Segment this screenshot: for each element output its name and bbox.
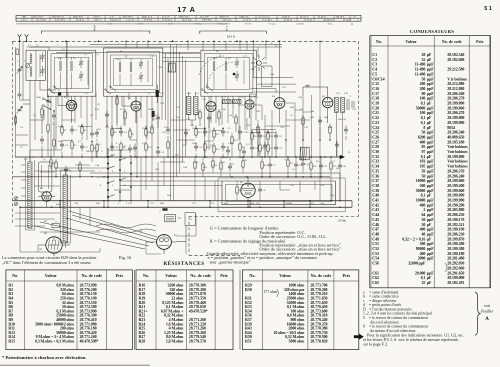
chassis dashed bottom-right [189,215,359,217]
IF can wires [189,92,196,126]
stage A nested loop 2 [54,57,89,89]
dashed motor enclosure [188,216,190,255]
pickup terminals [15,197,18,200]
svg-text:283211-49011-49011-49050200200: 283211-49011-49011-49050200200901000,150… [402,52,426,285]
svg-text:28.773.99028.776.20028.776.130: 28.773.99028.776.20028.776.13028.776.190… [80,283,99,344]
links between can B and can C [163,54,205,126]
capacitor C37 [268,163,272,165]
capacitor [242,150,246,152]
resistor [242,161,244,167]
resistor R8 [145,129,147,135]
wire right edge drop [351,201,353,208]
svg-text:28.773.70028.770.20028.770.210: 28.773.70028.770.20028.770.21028.771.650… [310,283,327,344]
svg-text:Prix: Prix [220,273,229,278]
svg-text:Prix: Prix [343,273,352,278]
resistor R18 [204,144,206,150]
svg-text:voir: voir [484,304,491,308]
resistor [55,162,57,168]
capacitor [156,116,160,118]
resistor R16 [195,129,197,135]
grid cap wire V2 [122,96,131,106]
variable capacitor C4 [18,108,22,110]
capacitor C27 [238,130,242,132]
bus wire y177 [13,176,331,178]
svg-text:No.: No. [12,273,18,278]
capacitor C22 [221,130,225,132]
svg-text:Prix: Prix [116,273,125,278]
svg-text:G = Commutateur de longueur: G = Commutateur de longueur d'ondes.Posi… [207,226,342,266]
capacitor C9 [90,132,94,134]
resistor [167,142,169,148]
legend a-6 [363,290,432,333]
svg-text:1000 ohm320 ohm par1400 ohm250: 1000 ohm320 ohm par1400 ohm25000 ohm5200… [273,283,305,344]
capacitor C23 [194,145,198,147]
stubs from dashed rail [126,41,266,50]
tube V2 EK2 [131,101,141,111]
resistor R17 [213,131,215,137]
mid horizontals y120-150 [62,120,276,141]
svg-text:µFµFµµFµµFµµFµµFµµFµµFµµFµµFµF: µFµFµµFµµFµµFµµFµµFµµFµµFµµFµFµµFµµFµFµF… [427,52,434,285]
capacitor C21 [203,130,207,132]
antenna terminal [18,34,22,41]
trimmer capacitor [139,62,143,64]
capacitor [184,131,188,133]
bus wire y181 [120,180,222,182]
stage B nested loop 3 [114,59,153,86]
junction dot [98,40,100,42]
wires around tuning bar [21,150,40,230]
resistances group 1 rows [8,283,98,344]
resistor [124,112,126,118]
relay box 14 [165,215,176,222]
arrow right end of AVC rail [340,155,345,159]
capacitor C35 [274,146,278,148]
antenna coil can [26,50,45,80]
resistor [199,112,201,118]
resistor [202,164,204,170]
grid cap wire V1 [58,96,66,105]
coil hatched bar [334,97,338,112]
resistor [47,125,49,131]
svg-text:R16R17R18R19R20R21R21+R22R23R2: R16R17R18R19R20R21R21+R22R23R24R25R26R27… [139,283,149,344]
svg-text:Valeur: Valeur [165,273,177,278]
svg-text:28.182.54028.182.60029.212.580: 28.182.54028.182.60029.212.580V ir bobin… [447,52,468,285]
resistor [235,117,237,123]
coil hatched bar [341,97,345,112]
bus wire y185 [120,185,222,187]
pilot lamp with rays [257,61,262,66]
stage B bottom wires [112,111,158,177]
wires around transformer bar [61,170,71,248]
wire motor to relay [176,213,195,242]
heater rail wire y200 [13,200,353,202]
left wire links [16,100,31,145]
resistances group 3 rows [245,283,328,344]
coil winding [213,61,215,63]
coil hatched bar [28,162,32,228]
coil hatched block [232,100,241,104]
capacitor [52,114,56,116]
switch contacts left [44,99,50,109]
rail contact dots [59,200,60,201]
resistor [116,98,118,104]
resistances group 1 frame [6,270,132,350]
tube V4 EM4 [245,100,254,109]
resistor [151,127,153,133]
resistor R21 [239,144,241,150]
capacitor [105,113,109,115]
bus wire y173 [90,172,340,174]
resistor R23 [267,133,269,139]
resistor R19 [213,146,215,152]
resistor [79,164,81,170]
condensateurs table frame [370,36,491,288]
earth terminal [25,34,29,41]
filler wires [42,94,346,177]
resistor R36 [236,187,238,193]
resistor [96,145,98,151]
resistor [53,140,55,146]
motor with governor [146,235,176,254]
trimmer capacitor [139,75,143,77]
coil winding [30,67,32,69]
junction dot [65,40,67,42]
capacitor [64,168,68,170]
note G1 G2 PULS [363,332,464,346]
top wire y44 [90,43,282,45]
stage C can box [201,50,256,96]
stage B can box [104,48,163,96]
wires below antenna can [30,80,56,162]
stage C nested loop 2 [208,57,250,89]
svg-text:No.: No. [143,273,149,278]
capacitor [133,146,137,148]
bracket right [200,31,266,34]
fuse at left [16,49,19,55]
tube V8 [42,192,52,202]
capacitor C18 [156,150,160,152]
svg-text:Valeur: Valeur [279,273,291,278]
switch arrows can B [106,87,116,94]
right top verticals [247,41,276,60]
coil hatched bar [193,97,198,115]
bottom-left link wires [15,171,100,252]
switch arrows can C [203,87,213,94]
svg-text:No. de code: No. de code [442,39,462,44]
tube V3 EF9 [206,102,216,112]
condensateurs column rules [387,36,389,288]
coil winding [225,61,227,63]
chassis dashed border top [13,40,359,42]
svg-text:Prix: Prix [476,39,483,44]
resistor R6 [111,129,113,135]
stage A inner verticals [61,54,89,89]
coil hatched bar [63,175,68,242]
ground rail wire y207 [20,206,352,208]
resistor [194,162,196,168]
junction dot [279,40,281,42]
rail tie verticals [60,201,310,208]
resistances group 3 frame [243,270,359,350]
resistor R2 [81,127,83,133]
C56 brace [445,263,448,271]
capacitor C41 [301,162,305,164]
resistor R25 [267,145,269,151]
switch ladder column 2 [119,150,121,201]
stage A bottom wires [56,124,92,163]
padder capacitor C26 blob [156,90,159,97]
extra junction dots clusters [47,96,48,97]
tube V7 CBL6 [241,183,255,197]
resistor [257,127,259,133]
output stage wire box [222,181,335,205]
resistor [212,161,214,167]
coil form box L17 [38,162,52,192]
svg-text:a= came d'isolementb= came c: a= came d'isolementb= came conductricec=… [363,290,432,333]
stage B nested loop 2 [110,55,156,89]
svg-text:Valeur: Valeur [405,39,417,44]
stage B inner wires [120,55,148,86]
EM4 wires [238,94,262,120]
svg-text:* Potentiomètre à charbon avec: * Potentiomètre à charbon avec dérivatio… [2,355,86,360]
stage C nested loop 1 [204,54,253,93]
condensateurs header rule [370,45,491,47]
svg-text:No. de code: No. de code [311,273,332,278]
capacitor [166,128,170,130]
coil winding [60,61,62,63]
arrow before note [354,334,363,340]
R30 brace [277,289,279,296]
switch ticks [108,155,115,197]
resistor R26 [261,162,263,168]
output stage outer thin box [218,178,345,212]
capacitor C40 [338,164,342,166]
box 13 [52,223,59,228]
junction blob [233,73,236,76]
resistances group 2 frame [136,270,233,350]
stage B below verticals [107,93,162,158]
switch shaft vertical [66,41,68,96]
wires below rail157 mid [195,157,243,177]
resistances group 2 rows [139,283,208,344]
resistor R4 [91,145,93,151]
tube V9 rectifier [38,237,70,256]
resistor [41,109,43,115]
coil hatched block [168,63,176,72]
middle cluster wires [252,130,276,158]
svg-text:0,8 M.ohm320 ohm64 ohm250 ohm3: 0,8 M.ohm320 ohm64 ohm250 ohm32 ohm50 oh… [35,283,75,344]
double rules between groups [134,270,136,350]
black component blob [58,92,61,95]
coil hatched block [300,147,310,160]
switch ticks 2 [120,158,126,180]
trimmer capacitor [235,74,239,76]
extra horizontals left-bottom [40,150,108,172]
stage A can box [48,50,96,96]
junction dot [252,40,254,42]
trimmer capacitor [79,61,83,63]
capacitor C39 [319,164,323,166]
junction dot [236,40,238,42]
component blob [152,111,155,117]
stage B nested loop 1 [107,52,160,93]
svg-text:CONDENSATEURS: CONDENSATEURS [410,30,454,35]
capacitor C30 [258,134,262,136]
bus wire y168 [55,167,90,169]
resistor R5 [50,160,52,166]
variable capacitor C3 [18,68,22,70]
capacitor [95,131,99,133]
capacitor [40,138,44,140]
svg-text:28.770.30028.770.20028.771.070: 28.770.30028.770.20028.771.07028.773.550… [189,283,208,344]
svg-text:Valeur: Valeur [45,273,57,278]
resistor R3 [71,142,73,148]
svg-text:Feuillet: Feuillet [481,310,494,314]
output stage wires [237,181,315,201]
can inner wires [27,47,50,80]
capacitor C10 [60,143,64,145]
resistor [302,118,304,124]
resistor R1 [61,127,63,133]
ladder rungs [96,150,131,207]
resistor R20 [231,137,233,143]
resistor R28 [310,163,312,169]
resistor R9 [120,144,122,150]
bracket 5 [41,31,149,34]
svg-text:No. de code: No. de code [81,273,102,278]
AVC rail wire y157 [15,156,343,158]
rotary switch arc in can C [199,56,224,75]
bus wire y162 [160,161,185,163]
capacitor C38 [294,163,298,165]
switch rotor in antenna can [26,64,30,68]
tube V1 CK1 [66,100,76,110]
transformer side marks [347,99,354,110]
tube V5 EBL1 [274,98,285,109]
stage C below verticals [204,96,251,157]
capacitor [335,143,339,145]
svg-text:No.: No. [376,39,382,44]
coil hatched block [222,100,231,104]
resistor R10 [145,144,147,150]
chassis dashed border left [12,41,14,223]
left edge wires [16,41,24,157]
junction dot [172,40,174,42]
svg-text:A: A [485,316,489,322]
resistor R7 [129,131,131,137]
legend G K [207,226,342,266]
capacitor [46,99,50,101]
trimmer capacitor [79,74,83,76]
capacitor [263,144,267,146]
bundle links [171,120,196,140]
chassis dashed border right [358,41,360,216]
capacitor C8 [70,128,74,130]
output stage inner wire box [226,184,333,201]
trimmer capacitor [41,55,45,57]
resistor [329,127,331,133]
capacitor C17 [128,147,132,149]
svg-text:Pour la signification des indi: Pour la signification des indications su… [363,332,464,346]
svg-text:RÉSISTANCES: RÉSISTANCES [163,259,204,267]
capacitor C42 top [306,84,310,86]
resistor R27 [287,160,289,166]
svg-text:La connexion pour court-circui: La connexion pour court-circuiter R29 da… [2,255,97,266]
svg-text:177 ohm: 177 ohm [264,290,277,294]
right bottom wires [262,157,340,201]
svg-text:No. de code: No. de code [190,273,211,278]
trimmer capacitor [41,69,45,71]
bottom right of motor wires [146,214,196,254]
resistor [218,112,220,118]
condensateurs rows [372,52,468,285]
wire y52 segment [56,52,200,54]
svg-text:No.: No. [249,273,255,278]
diagonal drive wires [35,211,157,249]
capacitor [228,165,232,167]
capacitor [207,116,211,118]
vertical bus bundle [171,44,186,200]
stage A below verticals [51,92,96,157]
capacitor C11 [80,145,84,147]
svg-text:R29R30R31R32R33R34R36R37R39R43: R29R30R31R32R33R34R36R37R39R43R44R50R51 [245,283,252,344]
capacitor C33 [250,146,254,148]
resistor R29 [330,163,332,169]
brace voir feuillet A [475,292,480,335]
tube V6 AZ1 [323,97,333,107]
curly pickup wires bottom [96,224,156,233]
capacitor C47 [258,188,262,190]
coil winding [30,54,32,56]
footnote potentiometre [2,355,86,360]
stage C inner wires [214,54,244,89]
trimmer capacitor [235,61,239,63]
caption la connexion [2,255,132,266]
capacitor [18,93,22,95]
right vertical wires [258,41,343,200]
capacitor C32 [274,134,278,136]
switch arrows can A [50,87,60,94]
resistor R22 [251,133,253,139]
stage A nested loop 1 [51,54,92,93]
capacitor [226,149,230,151]
verticals mid band [141,157,215,201]
svg-text:Fig. 16: Fig. 16 [119,255,132,260]
switch ladder column 3 [130,155,132,201]
capacitor C25 [221,145,225,147]
stage C bottom wires [196,118,247,157]
svg-text:3200 ohm320 ohm50000 ohm22 ohm: 3200 ohm320 ohm50000 ohm22 ohm0,125 M.oh… [161,283,184,344]
resistor R24 [259,145,261,151]
coil winding [71,61,73,63]
svg-text:C1C2C3C4C5C6/C14C15C16C17C18C1: C1C2C3C4C5C6/C14C15C16C17C18C19C20C21C22… [372,52,384,285]
junction dots on rails [125,41,126,42]
capacitor [318,119,322,121]
coil winding [130,62,132,64]
svg-text:R1R2R3R4R5R6R7R8R9R10R11R12R14: R1R2R3R4R5R6R7R8R9R10R11R12R14R15 [8,283,15,344]
coil hatched bar [186,97,191,115]
switch ladder column [107,148,109,201]
right horizontal links [265,103,311,126]
resistor [14,117,16,123]
HT rail wire y47 [30,46,282,48]
coil winding [119,62,121,64]
relay box 7 [162,208,167,210]
capacitor C13 [119,130,123,132]
resistor [220,163,222,169]
lamp wires [251,41,297,92]
sprinkled component labels [17,42,357,236]
